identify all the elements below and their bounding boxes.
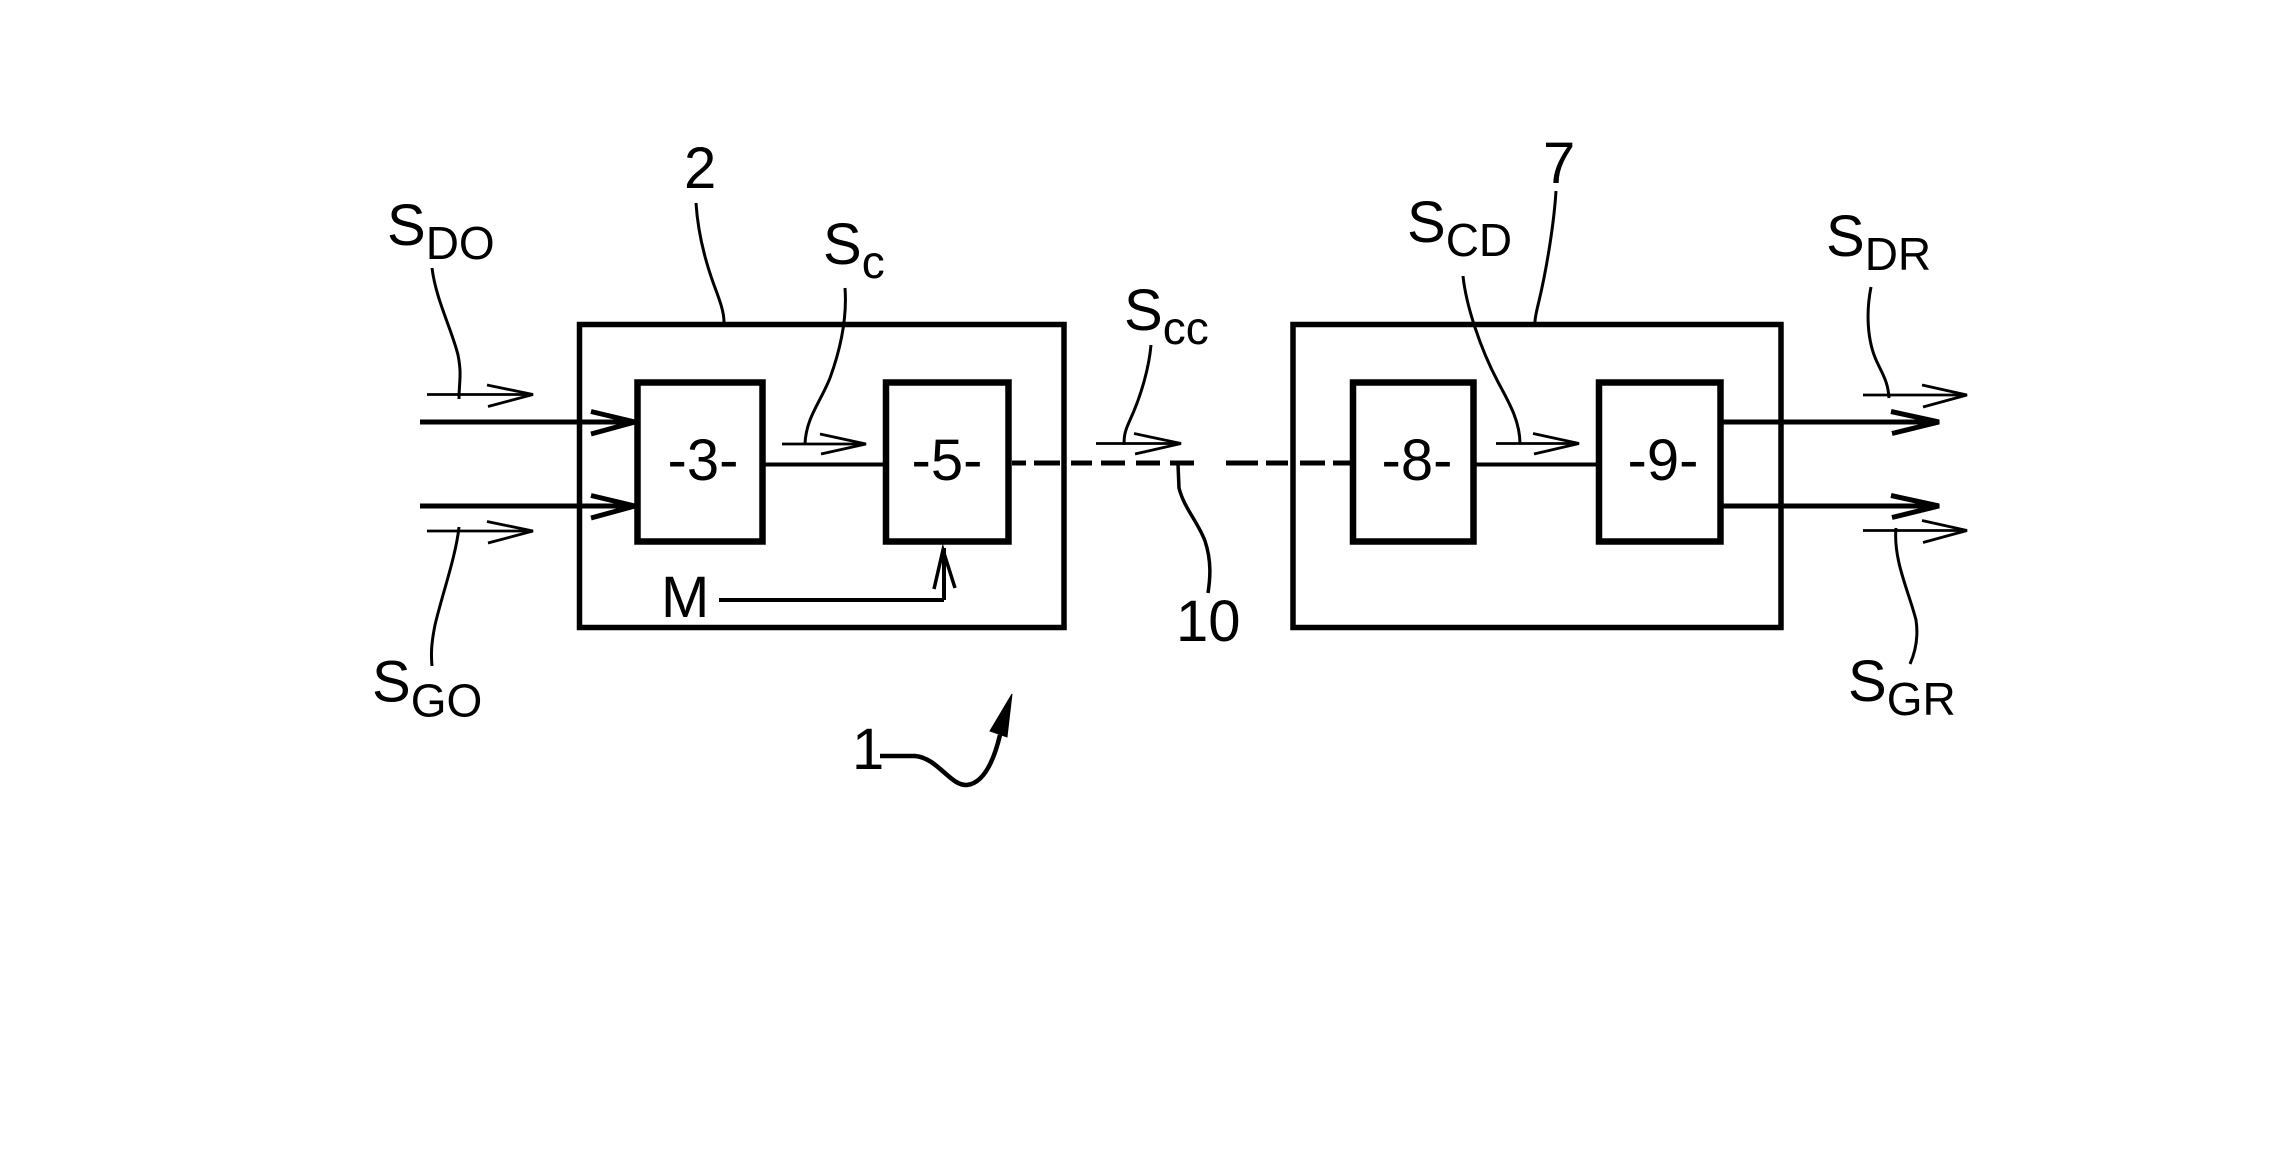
svg-text:1: 1 [852,717,884,782]
block 7 outer box [1293,325,1781,628]
signal arrow Scc [1096,434,1181,455]
label -8- [1382,428,1453,493]
signal arrow Sc [782,434,866,454]
leader from arrow to label SGO [431,527,459,666]
signal arrow SGR [1863,521,1967,543]
label -9- [1628,428,1699,493]
wire output G from block 9 [1721,496,1939,518]
label SGR [1848,649,1956,725]
leader from label 7 to block 7 [1535,191,1556,322]
svg-text:-3-: -3- [668,428,739,493]
block 5 [886,383,1009,542]
leader from arrow to label SGR [1896,528,1917,664]
label SGO [372,650,482,727]
wire input D to block 3 [420,412,635,435]
block 3 [638,383,763,542]
signal arrow SDO [427,385,533,407]
block 8 [1353,383,1474,542]
label M [661,565,709,630]
label 7 [1543,131,1575,196]
signal arrow SGO [427,522,533,544]
svg-text:M: M [661,565,709,630]
leader from label SDR to arrow [1868,287,1889,398]
signal arrow SCD [1496,434,1579,455]
signal arrow SDR [1863,385,1967,407]
leader from label SDO to arrow [432,268,460,399]
leader from label 2 to block 2 [696,203,724,322]
leader from dashed wire to label 10 [1178,464,1210,593]
svg-text:-5-: -5- [912,428,983,493]
label SDO [387,193,495,269]
dashed wire block 5 to block 8 (link 10) [1012,461,1350,466]
label Sc [823,212,885,288]
block 2 outer box [580,325,1065,628]
wire output D from block 9 [1721,412,1939,434]
label SCD [1407,190,1512,266]
svg-text:-8-: -8- [1382,428,1453,493]
svg-text:2: 2 [684,136,716,201]
wire block 8 to block 9 [1473,463,1599,467]
label 10 [1176,589,1241,654]
wire M to block 5 [719,548,955,600]
svg-text:10: 10 [1176,589,1241,654]
svg-text:7: 7 [1543,131,1575,196]
block 9 [1599,383,1721,542]
label -3- [668,428,739,493]
label -5- [912,428,983,493]
wire input G to block 3 [420,496,635,519]
leader from label Sc to arrow [805,288,845,444]
label Scc [1124,278,1209,354]
label SDR [1826,204,1931,280]
curved arrow from label 1 to block 2 [880,694,1012,785]
label 2 [684,136,716,201]
leader from label SCD to arrow [1463,276,1520,444]
label 1 [852,717,884,782]
svg-text:-9-: -9- [1628,428,1699,493]
leader from label Scc to arrow [1124,345,1151,445]
wire block 3 to block 5 [763,463,886,467]
